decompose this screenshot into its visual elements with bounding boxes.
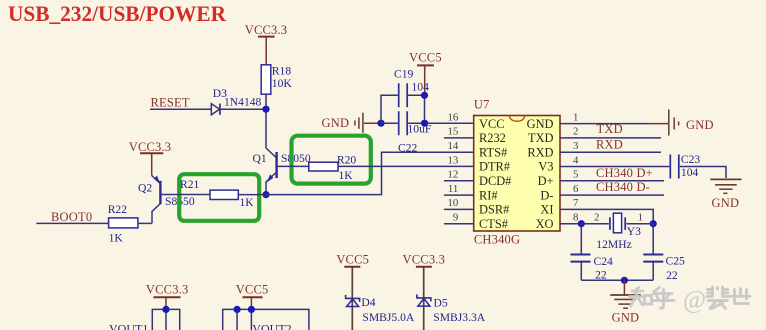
- svg-text:CH340G: CH340G: [474, 233, 520, 247]
- svg-text:C19: C19: [394, 68, 414, 81]
- svg-text:XO: XO: [536, 217, 554, 231]
- svg-text:V3: V3: [538, 160, 553, 174]
- svg-text:7: 7: [573, 197, 579, 209]
- power GND (left of C22): [322, 113, 382, 133]
- capacitor C24 22: [571, 224, 614, 282]
- wire D3 to node: [221, 108, 266, 110]
- svg-text:DCD#: DCD#: [479, 174, 511, 188]
- wire pin 7 XI to crystal right node: [560, 209, 653, 223]
- transistor Q1 S8050: [253, 148, 311, 195]
- svg-text:VCC: VCC: [479, 117, 504, 131]
- wire R22 to Q2 collector: [138, 222, 152, 224]
- resistor R18: [261, 65, 292, 95]
- svg-text:16: 16: [448, 111, 459, 123]
- svg-text:U7: U7: [474, 98, 490, 112]
- svg-text:1K: 1K: [339, 169, 354, 182]
- wire RESET: [150, 108, 211, 110]
- svg-text:SMBJ3.3A: SMBJ3.3A: [433, 311, 485, 324]
- svg-text:2: 2: [573, 126, 578, 138]
- svg-text:RXD: RXD: [596, 137, 623, 151]
- power GND (right of pin 1): [669, 110, 714, 136]
- svg-text:SMBJ5.0A: SMBJ5.0A: [362, 311, 414, 324]
- power VCC3.3 (above Q2): [129, 140, 172, 176]
- svg-text:9: 9: [453, 212, 458, 224]
- pin stubs left (15,12,11,10,9): [444, 138, 474, 224]
- resistor R21 1K: [180, 178, 254, 209]
- wire pin 6: [560, 194, 664, 196]
- svg-text:VCC3.3: VCC3.3: [146, 283, 189, 297]
- svg-text:TXD: TXD: [528, 131, 554, 145]
- wire BOOT0: [36, 222, 108, 224]
- svg-text:R232: R232: [479, 131, 506, 145]
- svg-text:3: 3: [573, 140, 578, 152]
- svg-text:C24: C24: [594, 255, 614, 268]
- svg-text:BOOT0: BOOT0: [51, 210, 92, 224]
- wire VOUT2 block top: [223, 309, 309, 330]
- svg-text:D-: D-: [540, 188, 553, 202]
- svg-text:1N4148: 1N4148: [224, 96, 262, 109]
- svg-text:C23: C23: [681, 153, 701, 166]
- capacitor C22 10uF: [381, 111, 432, 154]
- svg-text:Y3: Y3: [627, 225, 641, 238]
- wire C24-C25 bottom: [581, 279, 653, 281]
- svg-text:12MHz: 12MHz: [596, 238, 631, 251]
- svg-text:VCC5: VCC5: [336, 253, 369, 267]
- resistor R22 1K: [108, 203, 138, 244]
- svg-text:15: 15: [448, 126, 459, 138]
- svg-text:RI#: RI#: [479, 188, 498, 202]
- svg-text:22: 22: [595, 268, 607, 281]
- svg-text:VCC3.3: VCC3.3: [129, 140, 172, 154]
- svg-text:RXD: RXD: [527, 145, 553, 159]
- svg-text:DTR#: DTR#: [479, 160, 510, 174]
- power VCC3.3 (above D5): [403, 253, 446, 330]
- svg-text:22: 22: [666, 269, 678, 282]
- wire Q1 base to R20: [278, 165, 309, 167]
- wire pin 3 RXD: [560, 151, 661, 153]
- wire R20 to U7 pin 13: [338, 165, 474, 167]
- svg-text:GND: GND: [612, 310, 640, 324]
- svg-text:12: 12: [448, 169, 459, 181]
- svg-text:USB_232/USB/POWER: USB_232/USB/POWER: [8, 1, 227, 26]
- svg-text:GND: GND: [712, 196, 740, 210]
- node junction VOUT2 top a: [234, 306, 241, 313]
- wire C23 to ground: [680, 167, 726, 179]
- power VCC5 (above D4): [336, 253, 369, 330]
- svg-text:1K: 1K: [109, 232, 124, 245]
- svg-text:10: 10: [448, 197, 459, 209]
- capacitor C23 104: [670, 153, 700, 179]
- transistor Q2 S8550: [138, 176, 195, 224]
- node junction VOUT1 top: [162, 306, 169, 313]
- svg-text:11: 11: [448, 183, 458, 195]
- wire pin 2 TXD: [560, 137, 661, 139]
- svg-text:D5: D5: [434, 296, 448, 309]
- svg-text:D+: D+: [538, 174, 554, 188]
- svg-text:VCC3.3: VCC3.3: [245, 23, 288, 37]
- diode D5 SMBJ3.3A (TVS): [417, 294, 486, 324]
- svg-text:VCC5: VCC5: [409, 51, 442, 65]
- svg-text:GND: GND: [527, 117, 554, 131]
- wire R21 to junction: [238, 194, 266, 196]
- svg-text:5: 5: [573, 169, 578, 181]
- wire pin 4 to C23: [560, 166, 669, 168]
- svg-text:CTS#: CTS#: [479, 217, 508, 231]
- svg-text:14: 14: [448, 140, 459, 152]
- svg-text:R20: R20: [337, 154, 357, 167]
- wire VOUT1 block top: [152, 309, 179, 330]
- node junction XI/crystal/C25: [650, 220, 657, 227]
- node junction XO/crystal/C24: [578, 220, 585, 227]
- svg-text:C25: C25: [666, 254, 686, 267]
- ground (earth) under C23: [710, 179, 741, 210]
- crystal Y3 12MHz: [581, 212, 653, 251]
- svg-text:10uF: 10uF: [408, 122, 432, 135]
- power VCC5 (bottom, above VOUT2 block): [236, 283, 269, 310]
- svg-text:6: 6: [573, 183, 579, 195]
- power VCC3.3 (top, above R18): [245, 23, 288, 65]
- svg-text:XI: XI: [540, 203, 553, 217]
- wire pin 1 to GND: [560, 123, 650, 125]
- capacitor C25 22: [643, 224, 685, 282]
- green highlight box around R21: [179, 174, 259, 221]
- svg-text:R22: R22: [108, 203, 128, 216]
- svg-text:13: 13: [448, 154, 459, 166]
- svg-text:Q1: Q1: [253, 152, 267, 165]
- svg-text:VCC3.3: VCC3.3: [403, 253, 446, 267]
- svg-text:1: 1: [573, 111, 578, 123]
- wire RTS net: pin14 left, down, to Q1 emitter junction: [266, 152, 474, 194]
- svg-text:R21: R21: [180, 178, 200, 191]
- svg-text:C22: C22: [398, 142, 418, 155]
- svg-text:D4: D4: [361, 296, 375, 309]
- svg-text:104: 104: [412, 80, 430, 93]
- node junction ground stem: [621, 277, 628, 284]
- svg-text:TXD: TXD: [597, 122, 623, 136]
- power VCC5 (above C19): [409, 51, 442, 96]
- svg-text:104: 104: [681, 166, 699, 179]
- svg-text:CH340 D-: CH340 D-: [596, 180, 650, 194]
- green highlight box around R20: [292, 136, 371, 184]
- node junction C22/pin16: [421, 120, 428, 127]
- svg-text:VOUT1: VOUT1: [109, 322, 148, 330]
- node junction D3/R18/Q1: [262, 106, 269, 113]
- svg-text:8: 8: [573, 212, 578, 224]
- diode D4 SMBJ5.0A (TVS): [346, 295, 415, 324]
- svg-text:DSR#: DSR#: [479, 203, 509, 217]
- svg-text:@: @: [683, 287, 706, 314]
- node junction VOUT2 top b: [248, 306, 255, 313]
- svg-text:VOUT2: VOUT2: [252, 322, 291, 330]
- resistor R20 1K: [309, 154, 357, 182]
- node junction Q1 emitter / R21 / RTS net: [262, 191, 269, 198]
- node junction C19/VCC5: [421, 92, 428, 99]
- svg-text:1K: 1K: [240, 196, 255, 209]
- power VCC3.3 (bottom left, above VOUT1 block): [146, 283, 189, 310]
- diode D3 1N4148: [211, 87, 261, 115]
- svg-text:GND: GND: [322, 116, 350, 130]
- svg-text:10K: 10K: [272, 77, 293, 90]
- ground (earth) under crystal caps: [610, 280, 641, 324]
- wire pin 8 XO to crystal left node: [560, 223, 581, 225]
- svg-text:GND: GND: [686, 118, 714, 132]
- svg-text:1: 1: [638, 212, 643, 224]
- node junction GND/C22/C19: [377, 120, 384, 127]
- wire pin 5: [560, 180, 664, 182]
- wire Q2 base to R21: [162, 194, 210, 196]
- IC U7 CH340G body: [474, 98, 560, 247]
- svg-text:VCC5: VCC5: [236, 283, 269, 297]
- svg-text:RESET: RESET: [151, 96, 190, 110]
- capacitor C19 104: [381, 68, 429, 124]
- svg-text:CH340 D+: CH340 D+: [596, 166, 653, 180]
- svg-text:Q2: Q2: [138, 182, 152, 195]
- svg-text:RTS#: RTS#: [479, 145, 507, 159]
- watermark zhihu @feishi: [630, 287, 751, 309]
- wire VCC5 node down and to U7 pin 16: [425, 95, 474, 123]
- svg-text:S8050: S8050: [281, 152, 311, 165]
- svg-text:4: 4: [573, 154, 579, 166]
- svg-text:2: 2: [594, 212, 599, 224]
- wire R18 bottom to Q1 collector: [265, 94, 267, 148]
- svg-text:R18: R18: [272, 65, 292, 78]
